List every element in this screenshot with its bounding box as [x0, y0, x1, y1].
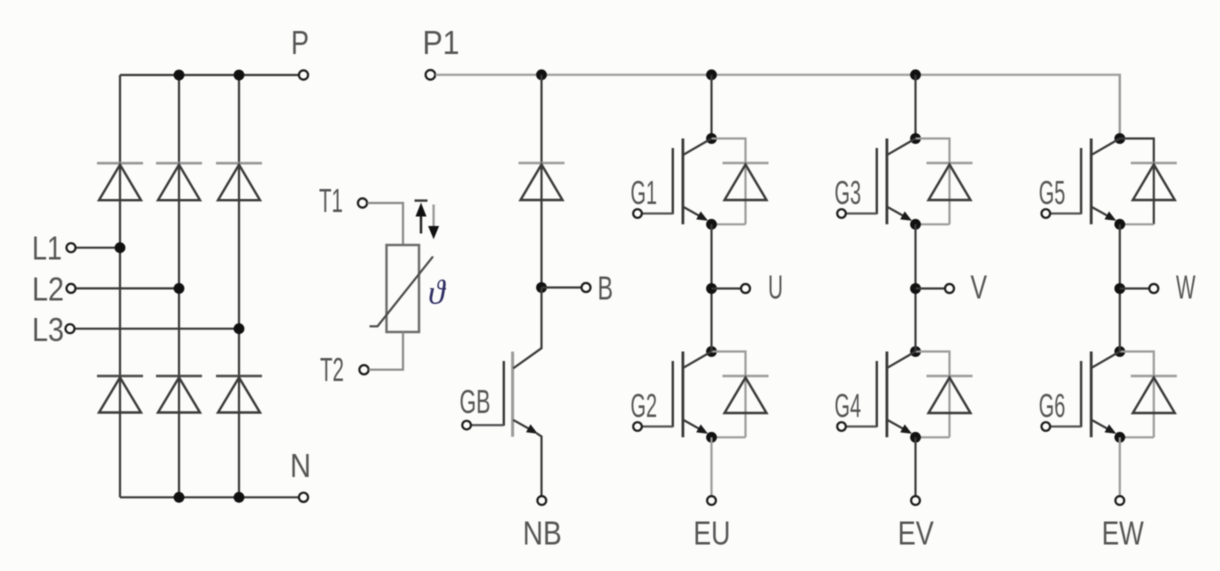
svg-text:G3: G3: [835, 174, 862, 211]
rectifier diode D4: [97, 376, 143, 413]
node G4 collector junction: [910, 346, 921, 357]
terminal NB: [537, 496, 546, 505]
wire T1 to thermistor: [367, 203, 403, 245]
IGBT G1 collector diagonal: [684, 139, 712, 155]
thermistor RT diagonal stroke: [370, 257, 434, 327]
wire L2: [76, 287, 180, 289]
freewheel diode across G1: [723, 162, 769, 165]
thermistor arrow down: [432, 205, 434, 229]
terminal U: [741, 284, 750, 293]
node G6 emitter junction: [1114, 432, 1125, 443]
IGBT G4 collector diagonal: [888, 352, 916, 368]
wire emitter to terminal EW: [1119, 437, 1121, 496]
IGBT G3 collector diagonal: [888, 139, 916, 155]
IGBT G6 collector diagonal: [1092, 352, 1120, 368]
rectifier leg 3 wire: [238, 75, 240, 497]
rectifier diode D3: [216, 163, 262, 200]
gate wire G2: [642, 425, 673, 427]
node L1 junction: [115, 242, 126, 253]
IGBT G2 gate bar: [672, 361, 674, 427]
thermistor arrow up: [415, 199, 428, 201]
IGBT GB emitter diagonal with arrow: [513, 420, 532, 431]
gate terminal G2: [633, 422, 642, 431]
terminal L2: [67, 284, 76, 293]
IGBT GB gate bar: [503, 361, 505, 426]
node G4 emitter junction: [910, 432, 921, 443]
svg-text:W: W: [1176, 269, 1196, 306]
IGBT G4 body bar: [886, 352, 889, 438]
IGBT G6 body bar: [1090, 352, 1093, 438]
svg-text:G4: G4: [835, 387, 862, 424]
terminal N: [299, 493, 308, 502]
IGBT G3 gate bar: [876, 148, 878, 214]
IGBT GB body bar: [511, 352, 514, 437]
wire phase middle V: [914, 224, 916, 351]
wire brake emitter to NB: [537, 433, 542, 496]
wire phase middle W: [1119, 224, 1121, 351]
wire rail drop to V-leg collector: [914, 75, 916, 139]
svg-text:N: N: [290, 447, 311, 484]
svg-text:EV: EV: [898, 515, 934, 552]
svg-text:V: V: [971, 269, 988, 306]
terminal T2: [359, 365, 368, 374]
rectifier diode D5: [156, 376, 202, 413]
node on bottom rail leg2: [174, 492, 185, 503]
IGBT G3 emitter diagonal with arrow: [888, 207, 908, 218]
wire brake leg upper: [540, 75, 542, 288]
node L3 junction: [234, 323, 245, 334]
node G1 emitter junction: [706, 219, 717, 230]
svg-text:L2: L2: [32, 271, 64, 308]
gate wire G6: [1050, 425, 1081, 427]
IGBT G6 gate bar: [1080, 361, 1082, 427]
top DC rail wire to P: [120, 74, 299, 76]
terminal P1: [426, 70, 436, 80]
node G3 collector junction: [910, 133, 921, 144]
svg-text:L3: L3: [32, 311, 64, 348]
wire freewheel-diode branch G6: [1120, 352, 1154, 438]
terminal EV: [911, 496, 920, 505]
rectifier leg 2 wire: [178, 75, 180, 497]
wire freewheel-diode branch G4: [916, 352, 950, 438]
svg-text:G1: G1: [631, 174, 658, 211]
terminal V: [945, 284, 954, 293]
node phase output V: [910, 283, 921, 294]
gate wire G4: [846, 425, 877, 427]
IGBT G5 collector diagonal: [1092, 139, 1120, 155]
svg-text:P: P: [291, 24, 309, 61]
svg-text:T2: T2: [320, 351, 344, 388]
freewheel diode across G4: [927, 375, 973, 378]
node on bottom rail leg3: [234, 492, 245, 503]
svg-text:G6: G6: [1039, 387, 1066, 424]
IGBT GB collector diagonal: [513, 348, 541, 368]
thermistor RT body: [387, 245, 420, 332]
IGBT G5 gate bar: [1080, 148, 1082, 214]
IGBT G2 collector diagonal: [684, 352, 712, 368]
node G3 emitter junction: [910, 219, 921, 230]
wire freewheel-diode branch G1: [712, 139, 746, 225]
wire freewheel-diode branch G2: [712, 352, 746, 438]
svg-text:EU: EU: [693, 515, 730, 552]
svg-text:G5: G5: [1039, 174, 1066, 211]
node G5 collector junction: [1114, 133, 1125, 144]
node rail brake tap: [536, 69, 547, 80]
IGBT G5 body bar: [1090, 139, 1093, 225]
svg-text:P1: P1: [423, 24, 460, 61]
svg-text:T1: T1: [319, 182, 343, 219]
node phase output W: [1114, 283, 1125, 294]
IGBT G6 emitter diagonal with arrow: [1092, 420, 1112, 431]
freewheel diode across G3: [927, 162, 973, 165]
terminal T1: [358, 198, 367, 207]
wire to terminal U: [712, 287, 742, 289]
wire L1: [76, 247, 121, 249]
gate terminal G3: [837, 209, 846, 218]
IGBT G1 gate bar: [672, 148, 674, 214]
svg-text:NB: NB: [523, 515, 562, 552]
wire phase middle U: [710, 224, 712, 351]
wire emitter to terminal EV: [914, 437, 916, 496]
wire P1 positive rail: [435, 75, 1119, 139]
wire freewheel-diode branch G5: [1120, 139, 1154, 225]
IGBT G1 emitter diagonal with arrow: [684, 207, 704, 218]
node G2 collector junction: [706, 346, 717, 357]
wire B node to brake IGBT collector: [540, 288, 542, 350]
freewheel diode across G5: [1131, 162, 1177, 165]
gate wire GB: [471, 424, 504, 426]
gate terminal G4: [837, 422, 846, 431]
wire to terminal W: [1120, 287, 1150, 289]
wire rail drop to U-leg collector: [710, 75, 712, 139]
terminal L3: [66, 324, 75, 333]
gate terminal G5: [1042, 209, 1051, 218]
node L2 junction: [174, 283, 185, 294]
brake diode DB: [519, 162, 565, 165]
svg-text:GB: GB: [460, 383, 491, 420]
node G6 collector junction: [1114, 346, 1125, 357]
node on top rail leg3: [234, 70, 245, 81]
node on top rail leg2: [174, 70, 185, 81]
wire to terminal V: [916, 287, 946, 289]
node G5 emitter junction: [1114, 219, 1125, 230]
gate terminal G1: [633, 209, 642, 218]
terminal EW: [1115, 496, 1124, 505]
gate wire G5: [1050, 212, 1081, 214]
gate wire G3: [846, 212, 877, 214]
gate terminal GB: [462, 421, 471, 430]
wire to terminal B: [542, 286, 581, 288]
terminal L1: [67, 243, 76, 252]
terminal B: [582, 283, 591, 292]
svg-text:ϑ: ϑ: [428, 275, 447, 312]
terminal P: [299, 70, 308, 79]
svg-text:U: U: [768, 269, 783, 306]
freewheel diode across G2: [723, 375, 769, 378]
svg-text:EW: EW: [1102, 515, 1145, 552]
wire T2 to thermistor: [369, 332, 403, 370]
rectifier leg 1 wire: [119, 75, 121, 497]
wire rail drop to W-leg collector: [1119, 75, 1121, 139]
freewheel diode across G6: [1131, 375, 1177, 378]
IGBT G2 body bar: [682, 352, 685, 438]
IGBT G4 emitter diagonal with arrow: [888, 420, 908, 431]
gate terminal G6: [1042, 422, 1051, 431]
wire emitter to terminal EU: [710, 437, 712, 496]
IGBT G3 body bar: [886, 139, 889, 225]
svg-text:L1: L1: [32, 230, 62, 267]
wire L3: [75, 328, 240, 330]
node rail V tap: [910, 69, 921, 80]
node rail U tap: [706, 69, 717, 80]
node phase output U: [706, 283, 717, 294]
IGBT G1 body bar: [682, 139, 685, 225]
terminal W: [1149, 284, 1158, 293]
rectifier diode D1: [97, 163, 143, 200]
gate wire G1: [642, 212, 673, 214]
bottom DC rail wire to N: [120, 496, 299, 498]
node G1 collector junction: [706, 133, 717, 144]
node G2 emitter junction: [706, 432, 717, 443]
svg-text:B: B: [598, 270, 614, 307]
svg-text:G2: G2: [631, 387, 658, 424]
IGBT G4 gate bar: [876, 361, 878, 427]
terminal EU: [707, 496, 716, 505]
wire freewheel-diode branch G3: [916, 139, 950, 225]
IGBT G5 emitter diagonal with arrow: [1092, 207, 1112, 218]
rectifier diode D2: [156, 163, 202, 200]
node B junction: [536, 282, 547, 293]
rectifier diode D6: [216, 376, 262, 413]
IGBT G2 emitter diagonal with arrow: [684, 420, 704, 431]
